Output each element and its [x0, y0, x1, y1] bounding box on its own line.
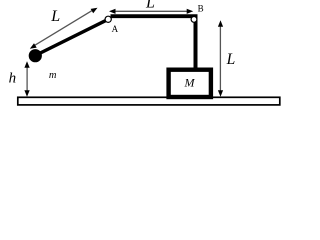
dimension L horizontal top: [109, 0, 193, 14]
svg-text:M: M: [184, 75, 196, 89]
ground: [18, 97, 280, 105]
svg-text:L: L: [226, 51, 236, 68]
block M: [169, 70, 211, 97]
svg-text:L: L: [145, 0, 155, 11]
svg-text:B: B: [198, 4, 204, 14]
svg-text:m: m: [49, 70, 57, 81]
dimension L along rod: [30, 8, 98, 49]
svg-text:h: h: [9, 70, 17, 86]
dimension L vertical right: [218, 20, 235, 97]
pivot circle A: [105, 16, 111, 22]
ball m: [29, 49, 42, 62]
svg-text:L: L: [50, 8, 60, 25]
pivot circle B: [191, 17, 197, 23]
svg-text:A: A: [112, 24, 119, 34]
wire vertical rod B to block: [194, 16, 198, 69]
dimension h left: [9, 61, 30, 97]
rod L (diagonal): [35, 19, 108, 55]
wire horizontal bar A to B: [111, 14, 198, 18]
